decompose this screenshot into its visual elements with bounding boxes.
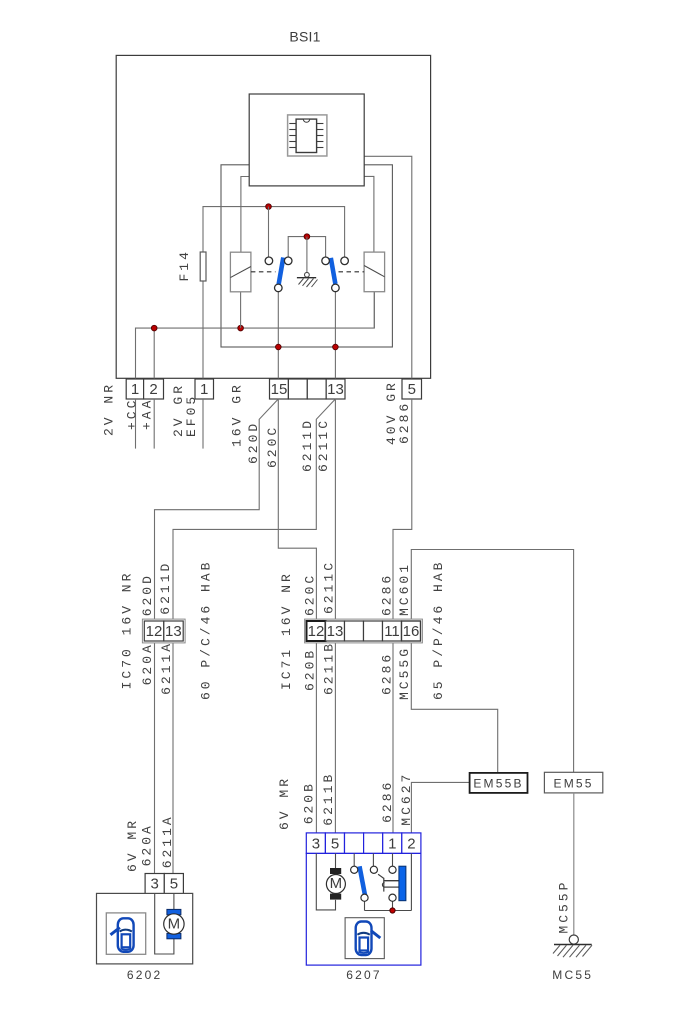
wire 6211D/6211A [173,399,335,874]
6207 contact circles [351,866,397,901]
svg-text:MC627: MC627 [399,772,414,826]
relay module box inside BSI1 [221,165,392,347]
svg-text:16: 16 [403,623,420,640]
svg-text:3: 3 [151,876,159,893]
svg-text:M: M [168,915,181,932]
svg-text:2: 2 [149,381,157,398]
motor M 6202 [164,909,184,938]
svg-text:6211D: 6211D [300,418,315,472]
svg-text:6V MR: 6V MR [125,818,140,872]
svg-text:6286: 6286 [380,573,395,616]
wire left switch left contact stem [268,207,270,257]
6207 motor wires [316,853,335,910]
6207 actuator bar blue [399,866,406,901]
6202 car icon (door open left) [111,918,134,952]
svg-text:1: 1 [131,381,139,398]
wire 620C/620B [278,399,316,833]
svg-text:6202: 6202 [127,968,163,982]
svg-text:620B: 620B [302,781,317,824]
svg-text:6211D: 6211D [158,561,173,615]
wire EM55 to ground MC55 [573,793,575,935]
wire stub +AA [153,399,155,449]
svg-text:6286: 6286 [397,401,412,444]
wire switch1 common to pin 15 [277,292,279,379]
ECU BSI1 outer box [116,55,430,378]
svg-text:6207: 6207 [346,968,382,982]
wire stub EF05 [202,399,204,449]
svg-text:F14: F14 [177,249,192,281]
dashed link K1 to switch [251,271,276,273]
wire 6211C/6211B [334,399,336,833]
6202 internal wires [155,894,174,954]
svg-text:MC55: MC55 [552,968,593,982]
component 6202 box [97,893,193,964]
interconnector IC70 [142,619,185,643]
fuse F14 [177,249,206,281]
svg-text:620A: 620A [140,823,155,866]
svg-text:MC55G: MC55G [397,646,412,700]
svg-text:M: M [330,875,343,892]
svg-text:IC70 16V NR: IC70 16V NR [120,571,135,690]
svg-text:6211C: 6211C [316,418,331,472]
wire CPU to left coil [241,177,250,253]
svg-text:12: 12 [308,623,325,640]
svg-text:13: 13 [327,381,344,398]
contact circles [265,257,348,292]
svg-text:60 P/C/46 HAB: 60 P/C/46 HAB [198,560,213,700]
wire MC627 from 6207 pin2 to EM55B [411,782,469,833]
ground MC55 [553,935,592,957]
wire MC55G to splice EM55B [411,641,497,773]
svg-text:EM55: EM55 [554,777,594,791]
wire CPU to right coil [364,176,374,252]
6207 car icon box [345,918,384,959]
wire ground stem [306,237,308,273]
svg-text:MC601: MC601 [397,562,412,616]
wire MC601 to earth EM55 [411,550,573,773]
svg-text:620D: 620D [140,573,155,616]
svg-text:6211A: 6211A [160,814,175,868]
svg-text:16V GR: 16V GR [230,382,245,447]
svg-text:13: 13 [327,623,344,640]
svg-text:12: 12 [146,623,163,640]
6207 lock lever blue [360,866,366,895]
ground internal BSI [297,272,318,287]
6207 car icon (door open right) [356,922,381,956]
svg-text:620C: 620C [303,573,318,616]
node junction wireA/left switch [266,204,272,210]
svg-text:EM55B: EM55B [473,777,523,791]
svg-text:1: 1 [200,381,208,398]
wire inverted U to ground [288,237,325,257]
6202 car icon box [106,913,145,954]
node junction 6207 [390,908,395,913]
svg-text:11: 11 [384,623,400,640]
wire left coil bottom stem [240,292,242,328]
motor M 6207 [326,868,345,900]
svg-text:6286: 6286 [380,652,395,695]
svg-text:IC71 16V NR: IC71 16V NR [279,571,294,690]
splice EM55B [470,773,528,793]
wire A from fuse to switch contacts [203,207,345,379]
relay coil K2 [364,252,385,292]
svg-text:3: 3 [312,835,320,852]
svg-text:6211A: 6211A [159,641,174,695]
svg-text:6V MR: 6V MR [277,776,292,830]
relay coil K1 [230,252,251,292]
svg-text:65 P/P/46 HAB: 65 P/P/46 HAB [431,560,446,700]
component 6207 pin boxes [306,833,421,854]
svg-text:1: 1 [388,835,396,852]
wire B supply rail from pin 1 to right coil [136,292,375,379]
svg-text:+CC: +CC [125,398,140,430]
svg-text:6211B: 6211B [322,641,337,695]
node junction pin2/rail [151,325,157,331]
6207 switch lever stems [353,853,355,866]
svg-text:5: 5 [408,381,416,398]
dashed link K2 to switch [339,271,365,273]
switch lever S1 [279,258,284,285]
node junction left coil/rail [238,325,244,331]
svg-text:+AA: +AA [140,398,155,430]
svg-text:620A: 620A [140,642,155,685]
svg-text:620D: 620D [246,421,261,464]
component 6207 box [306,853,421,965]
component 6202 pin boxes [145,874,183,894]
wire pin 2 stem to rail [153,328,155,379]
6207 lock mechanism [378,874,399,891]
svg-text:6211C: 6211C [322,560,337,614]
svg-text:BSI1: BSI1 [289,29,320,45]
earth point EM55 [544,772,602,793]
svg-text:6286: 6286 [380,780,395,823]
CPU box [249,94,364,186]
wire right coil bottom stem [373,292,375,328]
switch lever S2 [331,258,336,284]
6207 bottom rail [365,910,412,912]
6207 pin2 internal wire [410,853,412,910]
microcontroller chip [288,115,327,156]
wire stub +CC [135,399,137,449]
svg-text:2V NR: 2V NR [102,382,117,436]
svg-text:EF05: EF05 [184,394,199,437]
svg-text:MC55P: MC55P [557,880,572,934]
node junction ground stem [304,234,310,240]
svg-text:15: 15 [271,381,288,398]
node junction switch1 box edge [276,344,282,350]
BSI pin boxes [126,379,421,399]
node junction switch2 box edge [333,344,339,350]
svg-text:5: 5 [331,835,339,852]
wire 620D/620A [155,399,279,874]
svg-text:13: 13 [165,623,182,640]
wire switch2 common to pin 13 [334,292,336,379]
wire CPU to pin 5 [364,156,412,379]
svg-text:5: 5 [170,876,178,893]
interconnector IC71 [305,619,423,643]
svg-text:6211B: 6211B [321,772,336,826]
svg-text:2: 2 [407,835,415,852]
wire 6286 [393,399,412,833]
svg-text:620B: 620B [303,648,318,691]
